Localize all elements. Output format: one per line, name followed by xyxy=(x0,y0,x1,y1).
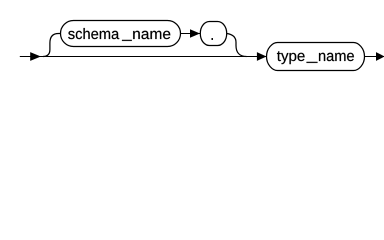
wire: branch up-left to schema_name oval xyxy=(43,34,61,57)
bubble for literal dot xyxy=(200,22,226,46)
label schema_name xyxy=(68,28,170,41)
wire: branch down-right from bubble to main line xyxy=(227,34,247,57)
arrowhead before type_name xyxy=(257,52,267,61)
label . xyxy=(211,38,213,40)
label type_name xyxy=(277,51,354,64)
wire: schema_name to dot bubble xyxy=(181,33,201,35)
arrowhead on entry line xyxy=(30,52,41,61)
wire: main entry line xyxy=(20,56,267,58)
arrowhead before dot bubble xyxy=(190,29,200,38)
oval schema_name xyxy=(61,21,181,47)
oval type_name xyxy=(267,43,365,71)
wire: exit line xyxy=(365,56,384,58)
arrowhead exit xyxy=(376,52,384,61)
